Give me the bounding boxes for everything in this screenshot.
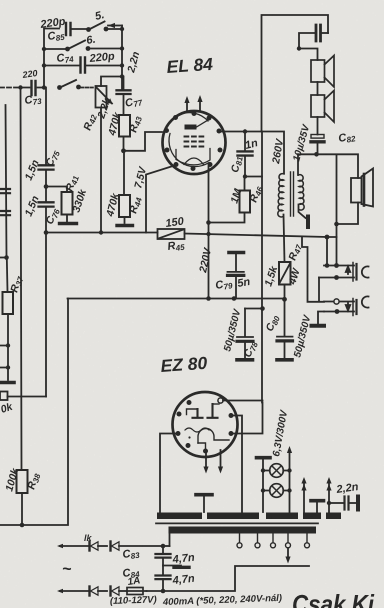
node: R42 bottom junction	[99, 230, 103, 234]
ground of jack2	[312, 324, 325, 328]
ground of heater winding	[311, 501, 324, 512]
resistor R37	[3, 258, 14, 346]
node: R38 bottom on B+ branch	[20, 523, 25, 528]
capacitor C82 electrolytic	[311, 117, 324, 154]
wire: EZ80 cathode strap to raw B+	[223, 401, 263, 434]
wire: R46 top lead	[244, 177, 246, 191]
capacitor tweeter coupling	[297, 25, 328, 60]
switch 6	[65, 41, 122, 52]
wire: 220V line (cathode of output stage)	[208, 167, 210, 299]
heater arrows of EZ80	[203, 450, 223, 474]
node: left edge junction 2	[6, 365, 10, 369]
node: C78 junction on raw B+	[260, 306, 265, 311]
ground left chain	[2, 381, 15, 385]
wire: row of switch 6	[44, 48, 66, 50]
speaker main	[351, 169, 373, 207]
potentiometer R42	[96, 86, 113, 108]
wire: B+ branch bottom left	[0, 299, 68, 526]
wire: C74 row	[44, 65, 79, 67]
wire: speaker feed rail y154	[298, 154, 358, 178]
wire: C75/C76 bus from C73 node	[45, 88, 47, 165]
AC input lower line	[57, 589, 89, 594]
wire: jack rail x336	[336, 155, 338, 266]
resistor R44	[119, 151, 130, 223]
wire: stub off left edge	[0, 257, 7, 259]
wire: secondary top lead	[297, 154, 299, 175]
node: grid divider node	[121, 148, 126, 153]
transformer core	[291, 172, 294, 216]
capacitor C76	[39, 187, 54, 233]
wire: anode line from EL84 to transformer	[221, 132, 284, 174]
capacitor C80 electrolytic	[277, 299, 293, 357]
node: C79 bottom	[232, 296, 237, 301]
wire: AC lower to selector	[147, 566, 310, 591]
wire: R46 bottom lead	[209, 214, 245, 223]
tube EL84 internals	[169, 113, 210, 167]
heater winding arrow 2	[326, 477, 331, 512]
ground of R41	[60, 222, 77, 225]
resistor R45	[158, 229, 185, 239]
ground of C80	[277, 358, 292, 362]
capacitor C81	[238, 132, 253, 177]
speaker tweeter 1	[311, 56, 334, 88]
wire: jack1 lower to jack2 upper	[318, 278, 320, 302]
wire: cathode lead from tube to R45	[146, 165, 176, 233]
wire: left bus x44 top section	[44, 29, 59, 88]
wire: screen feed x46 down	[45, 233, 47, 397]
wire: anode/tweeter feed top rail	[262, 15, 329, 132]
capacitor C85	[66, 23, 87, 35]
node: R47/C80/bus junction	[282, 297, 287, 302]
wire: right switch bus x122 with left arrow stub	[108, 23, 124, 90]
speaker tweeter 2	[311, 91, 334, 123]
lamp 1	[263, 464, 290, 478]
transformer secondary bar segment 1	[157, 513, 202, 520]
transformer secondary bar segment 4	[303, 513, 321, 520]
capacitor C83	[156, 546, 171, 566]
ground of R44	[117, 224, 133, 227]
rectifier diode 1b	[111, 542, 164, 551]
heater arrows of EL84	[184, 95, 202, 111]
capacitor C74	[81, 58, 123, 73]
transformer secondary bar segment 5	[326, 513, 341, 520]
capacitor C78 electrolytic	[237, 309, 253, 358]
node: C81 top junction	[243, 129, 247, 133]
capacitor fragment left edge upper	[0, 189, 10, 193]
wire: bus end to jack rail	[327, 237, 337, 266]
chassis ground of secondary	[306, 217, 310, 228]
node: bus end junction	[325, 235, 330, 240]
rectifier diode 2b	[111, 587, 128, 596]
wire: R42 bottom lead down to feedback bus	[100, 108, 102, 233]
tube EL84 pins	[164, 111, 223, 171]
wire: primary left end down to AC	[169, 534, 171, 547]
wire: R43 bottom to node	[123, 137, 125, 151]
heater winding arrow 1	[301, 477, 306, 512]
rectifier diode 2a	[90, 587, 108, 596]
wire: stub left 2	[0, 368, 8, 381]
node: C83 top	[161, 544, 166, 549]
switch 7 (pot switch)	[57, 80, 95, 90]
jack socket 1 upper	[319, 263, 369, 282]
wire: C73 bus x21 long vertical	[21, 88, 22, 470]
node: C81 bottom junction	[243, 174, 247, 178]
tube EZ80 pins	[176, 400, 234, 454]
resistor left edge horizontal	[0, 392, 46, 401]
wire: secondary bottom to chassis	[299, 205, 306, 219]
wire: lamp rail right with arrow	[289, 452, 291, 512]
wire: EZ80 anode lead to HV winding	[231, 416, 242, 513]
node: junction left bus / C73	[42, 85, 46, 89]
transformer secondary bar segment 3	[266, 513, 298, 520]
resistor R46	[240, 191, 251, 213]
node: C75/C76/R41 junction	[44, 184, 49, 189]
lamp rail with chassis bar	[257, 458, 271, 512]
wire: R47 bottom to C80 node	[284, 285, 286, 300]
node: C76 bottom on feedback bus	[44, 230, 49, 235]
wire: feedback bus y233 left part	[46, 232, 158, 234]
primary taps	[237, 534, 310, 548]
switch 5	[86, 22, 122, 32]
wire: AC upper to primary	[163, 545, 170, 547]
capacitor C73	[23, 81, 44, 95]
pin ring EZ80 top right	[218, 398, 223, 403]
wire: tweeter link	[317, 82, 319, 95]
capacitor 2.2n line filter	[327, 497, 358, 510]
node: C84 bottom	[161, 589, 166, 594]
node: 220V line bottom	[206, 296, 211, 301]
wire: left edge vertical upper	[6, 105, 7, 258]
wire: B+ bus y298	[68, 298, 285, 300]
wire: grid link to tube	[124, 132, 163, 151]
transformer primary bar	[169, 527, 317, 534]
voltage selector arrow	[285, 548, 290, 564]
tube EZ80 envelope	[173, 392, 238, 457]
wire: raw B+ rail x262	[261, 177, 263, 403]
lamp 2	[263, 484, 290, 498]
node: junction at C73 left	[18, 85, 22, 89]
wire: stub left 1	[0, 346, 8, 368]
transformer secondary bar segment 2	[207, 513, 259, 520]
node: R46 tap junction	[206, 220, 211, 225]
wire: jack2 to ground	[318, 312, 324, 324]
capacitor C75	[39, 165, 54, 186]
wire: EZ80 left heater to winding	[160, 434, 178, 513]
node: R37 top junction	[4, 255, 9, 260]
wire: R42 top lead from bus	[101, 77, 122, 87]
capacitor C79 to chassis	[228, 253, 244, 299]
fuse 1A	[127, 588, 147, 595]
transformer output secondary winding	[299, 175, 305, 210]
AC input upper line	[57, 544, 89, 549]
wire: speaker line to jack2	[302, 237, 324, 302]
rectifier diode 1a	[90, 542, 108, 551]
jack socket 2 lower	[324, 296, 369, 315]
wire: primary bottom lead to R47	[284, 215, 285, 263]
node: left edge junction 1	[6, 343, 10, 347]
node: bus / cathode line crossing	[206, 232, 210, 236]
capacitor C84	[156, 566, 171, 592]
chassis tap between C83 C84	[163, 566, 189, 568]
wire: C78 top lead	[245, 308, 263, 310]
tube EL84 envelope	[163, 111, 226, 174]
transformer core line	[156, 522, 318, 524]
ground of HV center tap	[196, 495, 212, 512]
node: C82 / secondary node	[314, 152, 319, 157]
wire: speaker return to jack rail	[337, 203, 359, 225]
resistor R47 power	[279, 262, 291, 285]
resistor R38	[17, 470, 28, 525]
capacitor fragment left edge lower	[0, 211, 10, 215]
ground of C78	[237, 358, 253, 362]
tube EZ80 internals	[185, 404, 229, 450]
transformer output primary winding	[278, 174, 284, 217]
wire: dashed input line to C73	[0, 87, 18, 89]
wire: C81 bypass loop	[245, 132, 262, 177]
node: speaker return junction	[334, 222, 339, 227]
capacitor C77	[117, 77, 131, 116]
resistor R41	[46, 187, 73, 222]
resistor R43	[119, 115, 130, 137]
wire: feedback bus y233 right part	[185, 234, 328, 238]
